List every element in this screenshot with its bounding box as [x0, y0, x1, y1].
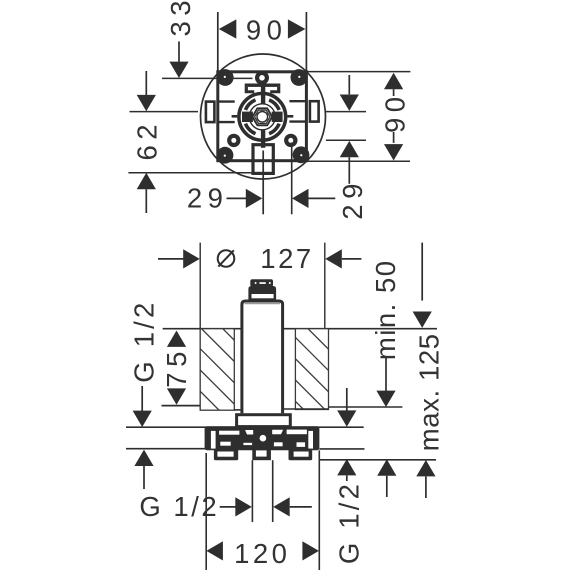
dim 90 right: bottom arrow [384, 144, 403, 160]
screw top-left [217, 69, 234, 86]
left tab top extension [218, 100, 235, 102]
dim 90 top: left extension line [217, 12, 219, 102]
dim 29 bottom: extension line right [291, 143, 293, 215]
min 50: down arrow [376, 391, 395, 407]
G1/2 right: down arrow [337, 410, 356, 426]
rail centre hole [260, 435, 267, 442]
extension line D [318, 450, 320, 570]
dia 127: right leader [342, 258, 362, 260]
dim 62: lower line [145, 189, 147, 213]
G1/2 left: lower line [143, 466, 145, 489]
wall bottom line left gap [234, 409, 240, 411]
rail slot: top centre-left [245, 430, 253, 435]
dia 127: left extension line [199, 243, 201, 411]
right tab [310, 101, 319, 121]
centre port box [252, 449, 271, 461]
dia 127: right extension line [324, 243, 326, 408]
max 125: up arrow [416, 460, 435, 476]
rail slot: right vertical [308, 431, 313, 449]
dim 90 top: right extension line [305, 12, 307, 101]
svg-text:62: 62 [132, 119, 163, 161]
G1/2 bottom: right leader [290, 506, 312, 508]
dim 29 right: upper arrow [340, 95, 359, 111]
dia 127: diameter symbol [218, 250, 235, 267]
dim 29 bottom: right arrow [292, 189, 309, 208]
BOTTOM VIEW [126, 243, 445, 570]
min 50: lower line [386, 476, 388, 497]
G1/2 bottom: left arrow [235, 497, 252, 516]
dim 120: right arrow [302, 541, 319, 560]
dim 33: arrow [169, 62, 188, 78]
hub segmented ring [245, 100, 279, 134]
svg-text:90: 90 [246, 14, 288, 45]
dim 90 right: top extension line [306, 71, 410, 73]
dim 62: lower arrow [137, 173, 156, 189]
screw bottom-left [217, 147, 234, 164]
svg-text:90: 90 [379, 91, 410, 133]
min 50: up arrow [377, 459, 396, 475]
cylinder body [242, 301, 283, 413]
left wall hatch block [200, 329, 234, 411]
hub north stem [261, 81, 265, 104]
right tab top extension [289, 100, 306, 102]
G1/2 left: line [141, 386, 143, 411]
dim 75: bottom reference line [162, 405, 201, 407]
bottom frame [253, 145, 273, 174]
extension line top holes y=78.4 [162, 77, 253, 79]
mid-left grommet [227, 134, 240, 147]
dim 90 top: left arrow [219, 19, 237, 38]
rail slot: mid centre-right [274, 442, 283, 446]
dim 75: top arrow [167, 331, 186, 347]
wall top surface line right [284, 328, 437, 330]
svg-text:75: 75 [161, 346, 192, 388]
neck box [237, 415, 291, 427]
G1/2 bottom: right arrow [273, 497, 290, 516]
dim 75: bottom arrow [167, 388, 186, 404]
cylinder cap [250, 279, 273, 286]
screw bottom-right [293, 146, 310, 163]
top bracket right foot [270, 87, 280, 93]
dim 29 bottom: left leader [227, 197, 247, 199]
rail bottom right short line [319, 448, 364, 450]
hex nut outer [252, 108, 272, 125]
svg-text:G 1/2: G 1/2 [334, 481, 365, 564]
svg-text:29: 29 [187, 183, 229, 214]
rail slot: top far-left [219, 431, 239, 435]
hub east tick [287, 115, 293, 118]
dim 90 right: bottom extension line [306, 160, 410, 162]
flange circle [201, 54, 326, 179]
centre line below hub [262, 151, 264, 215]
left tab bottom extension [218, 121, 235, 123]
bracket rail body [205, 426, 320, 450]
dim 90 top: right arrow [288, 19, 306, 38]
extension line B [251, 460, 253, 522]
extension line y=111.6 left [130, 111, 199, 113]
dia 127: right arrow [325, 249, 342, 268]
cylinder collar [248, 286, 276, 302]
dim 29 bottom: left arrow [246, 189, 262, 208]
hub east jaw [272, 112, 283, 122]
G1/2 right: stub [346, 475, 348, 481]
G1/2 bottom: left leader [220, 506, 236, 508]
rail slot: mid centre-left [243, 443, 252, 445]
extension line C [272, 460, 274, 522]
G1/2 left: up arrow [134, 450, 153, 466]
G1/2 left: down arrow [133, 411, 152, 427]
rail slot: mid far-right [297, 442, 306, 447]
left tab [206, 102, 215, 123]
dim 29 right: stub [348, 157, 350, 184]
hub west jaw [242, 112, 253, 122]
hex nut inner [255, 110, 270, 123]
TOP VIEW [128, 0, 410, 220]
hub south stem [261, 130, 265, 148]
dim 29 right: upper tail [348, 75, 350, 94]
dim 90 right: top arrow [384, 73, 403, 89]
max 125: down arrow [413, 312, 432, 328]
hub inner ring [249, 104, 275, 130]
cylinder seam [245, 303, 281, 305]
left port box [214, 449, 238, 461]
bracket bottom line right [319, 459, 436, 461]
mounting plate [218, 72, 307, 161]
svg-text:min. 50: min. 50 [370, 259, 401, 360]
wall bottom line far right [329, 406, 403, 408]
dim 90 right: lower line segment [393, 132, 395, 143]
svg-text:G 1/2: G 1/2 [129, 299, 160, 382]
dim 29 right: arrow [340, 141, 359, 157]
hub outer ring [239, 93, 286, 140]
extension line y=172.7 [128, 172, 273, 174]
G1/2 right: line [346, 388, 348, 411]
svg-text:120: 120 [234, 538, 290, 569]
extension line A [205, 453, 207, 570]
extension line y=111.6 right [326, 111, 366, 113]
rail slot: mid far-left [220, 442, 230, 446]
rail slot: left vertical [211, 431, 216, 449]
screw top-right [291, 69, 308, 86]
max 125: top line [421, 243, 423, 301]
rail slot: top far-right [287, 430, 307, 435]
dia 127: left arrow [183, 249, 200, 268]
dim 62: upper arrow [137, 95, 156, 111]
dim 62: upper line [145, 71, 147, 95]
dim 29 bottom: right leader [309, 197, 336, 199]
right tab bottom extension [289, 120, 306, 122]
rail bottom left line [126, 448, 205, 450]
G1/2 right: up arrow [337, 459, 356, 475]
dim 120: left arrow [206, 541, 223, 560]
svg-text:33: 33 [165, 0, 196, 36]
svg-text:127: 127 [260, 243, 313, 274]
hub centre circle [257, 112, 268, 123]
wall top surface line left [163, 328, 241, 330]
flange top line [126, 426, 364, 428]
right wall hatch block [295, 329, 328, 410]
max 125: lower line [425, 476, 427, 498]
svg-text:G 1/2: G 1/2 [139, 491, 219, 522]
dia 127: left leader [158, 258, 184, 260]
top bracket left foot [245, 87, 255, 93]
mid-right grommet [284, 134, 297, 147]
top bracket bar [245, 84, 281, 87]
right port box [289, 449, 313, 461]
svg-text:29: 29 [337, 178, 368, 220]
hub west tick [232, 115, 238, 118]
dim 29 right: extension line y=140.3 [326, 139, 366, 141]
min 50: line [385, 358, 387, 392]
wall bottom line right [284, 408, 329, 410]
dim 90 right: upper line segment [393, 89, 395, 96]
rail slot: top centre-right [272, 430, 283, 434]
top centre grommet [255, 71, 269, 85]
svg-text:max. 125: max. 125 [414, 333, 445, 451]
dim 33: dimension line [178, 41, 180, 62]
